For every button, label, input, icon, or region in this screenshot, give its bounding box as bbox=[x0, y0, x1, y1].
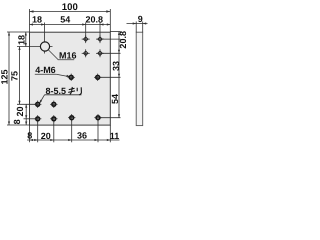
side view bbox=[136, 32, 143, 125]
dim 100 line bbox=[30, 9, 111, 32]
M16 leader bbox=[48, 50, 58, 60]
M6 hole D4 bbox=[96, 49, 104, 57]
svg-text:20.8: 20.8 bbox=[118, 31, 128, 49]
drill hole B2 bbox=[94, 114, 101, 121]
drill hole G3 bbox=[34, 115, 41, 122]
M6 hole D3 bbox=[82, 49, 90, 57]
drill hole B1 bbox=[68, 114, 75, 121]
extension circle col bbox=[44, 23, 46, 54]
top chain ticks bbox=[30, 23, 111, 25]
svg-text:75: 75 bbox=[10, 71, 20, 81]
kiri glyphs bbox=[68, 87, 81, 95]
svg-text:33: 33 bbox=[111, 61, 121, 71]
drill hole G4 bbox=[50, 115, 57, 122]
svg-text:8: 8 bbox=[27, 131, 32, 141]
drill hole M2 bbox=[94, 74, 101, 81]
drill hole M1 bbox=[68, 74, 75, 81]
svg-text:18: 18 bbox=[17, 35, 27, 45]
svg-text:M16: M16 bbox=[59, 50, 77, 60]
svg-text:4-M6: 4-M6 bbox=[35, 65, 56, 75]
bottom chain bbox=[27, 120, 120, 142]
extension hole col 2 bbox=[99, 23, 101, 40]
right chain bbox=[100, 32, 121, 118]
M6 hole D2 bbox=[96, 35, 104, 43]
M6 hole D1 bbox=[82, 35, 90, 43]
extension hole col 1 bbox=[85, 23, 87, 40]
M16 circle bbox=[40, 42, 49, 51]
svg-text:18: 18 bbox=[32, 15, 42, 25]
left grid chain bbox=[17, 104, 35, 125]
left dim 18 line bbox=[17, 32, 53, 47]
svg-text:9: 9 bbox=[138, 14, 143, 24]
drill hole G2 bbox=[50, 101, 57, 108]
svg-text:11: 11 bbox=[110, 131, 120, 141]
dim 9 side bbox=[127, 22, 148, 33]
svg-text:36: 36 bbox=[77, 131, 87, 141]
left dim 75 line bbox=[19, 47, 21, 105]
svg-text:20.8: 20.8 bbox=[86, 15, 104, 25]
svg-text:125: 125 bbox=[0, 69, 10, 84]
svg-text:54: 54 bbox=[110, 94, 120, 104]
drill hole G1 bbox=[34, 101, 41, 108]
left dim 125 line bbox=[7, 32, 30, 125]
circle center extension bbox=[17, 46, 53, 48]
4-M6 leader bbox=[56, 74, 69, 76]
plate front view bbox=[30, 32, 111, 125]
svg-text:54: 54 bbox=[60, 15, 70, 25]
dim 100 arrows bbox=[30, 10, 111, 12]
svg-text:100: 100 bbox=[62, 2, 78, 13]
8-5.5 leader bbox=[40, 95, 45, 103]
top chain line bbox=[30, 23, 111, 54]
svg-text:8: 8 bbox=[12, 119, 22, 124]
svg-text:20: 20 bbox=[15, 106, 25, 116]
svg-text:20: 20 bbox=[41, 131, 51, 141]
